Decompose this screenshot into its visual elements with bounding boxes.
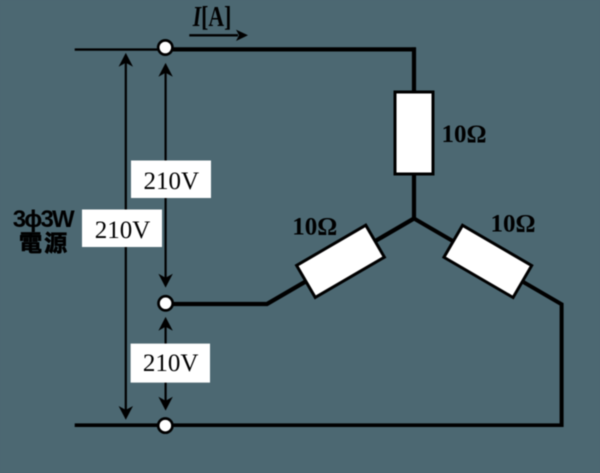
svg-text:10Ω: 10Ω xyxy=(490,211,535,238)
svg-text:210V: 210V xyxy=(95,217,151,244)
svg-text:I[A]: I[A] xyxy=(192,1,231,33)
svg-text:210V: 210V xyxy=(143,350,199,377)
svg-text:10Ω: 10Ω xyxy=(441,121,486,148)
svg-text:210V: 210V xyxy=(144,168,200,195)
svg-text:3ϕ3W: 3ϕ3W xyxy=(13,206,75,233)
svg-text:10Ω: 10Ω xyxy=(292,214,337,241)
